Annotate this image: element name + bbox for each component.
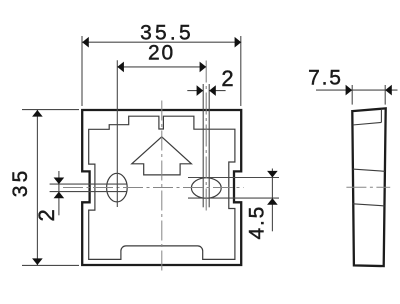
dim 35 top arrow <box>32 110 43 117</box>
right hole centerline <box>205 61 207 213</box>
front view inner contour <box>89 116 235 259</box>
right slot upper line <box>188 177 279 179</box>
dim 4.5 line <box>271 169 273 232</box>
side view lip line <box>353 122 382 125</box>
side view upper slot line <box>353 169 385 171</box>
dim 7.5 left arrow <box>346 85 353 96</box>
left slot lower line <box>50 191 127 193</box>
svg-text:7.5: 7.5 <box>308 67 343 90</box>
dim 20 right arrow <box>200 62 207 73</box>
dim 20 left arrow <box>117 62 124 73</box>
svg-text:2: 2 <box>221 66 235 91</box>
dim 7.5 left extension line <box>351 85 353 105</box>
left slot upper line <box>50 183 127 185</box>
dim 2 top left line <box>187 90 203 92</box>
dim 2 left line <box>58 171 60 215</box>
dim 35 bottom extension line <box>22 264 79 266</box>
dim 20 left extension line <box>116 60 118 207</box>
dim 35.5 line <box>82 41 241 43</box>
dim 35.5 left extension line <box>81 36 83 106</box>
right hole <box>191 178 221 198</box>
dim 4.5 top arrow <box>267 171 278 178</box>
dim 2 top right line <box>209 90 225 92</box>
svg-text:20: 20 <box>148 41 175 64</box>
side view lip vertical <box>380 109 382 123</box>
dim 7.5 right arrow <box>385 85 392 96</box>
svg-text:4.5: 4.5 <box>245 205 268 240</box>
vertical slot left edge <box>202 84 204 207</box>
dim 35.5 left arrow <box>82 37 89 48</box>
dim 35 line <box>36 110 38 265</box>
right slot lower line <box>188 197 279 199</box>
vertical slot right edge <box>208 84 210 207</box>
vertical centerline <box>161 101 163 273</box>
dim 2 top right arrow <box>209 85 216 96</box>
side view outline <box>352 108 385 266</box>
dim 2 left top arrow <box>54 178 65 185</box>
dim 35 top extension line <box>22 109 79 111</box>
front view outer outline <box>82 110 241 265</box>
side view lower slot line <box>353 204 385 206</box>
svg-text:35: 35 <box>9 168 32 198</box>
block arrow marking <box>132 137 192 175</box>
svg-text:2: 2 <box>34 207 59 221</box>
side view centerline <box>346 186 390 188</box>
dim 2 left bottom arrow <box>54 192 65 199</box>
dim 2 top left arrow <box>197 85 204 96</box>
dim 35 bottom arrow <box>32 258 43 265</box>
dim 7.5 line <box>316 89 398 91</box>
dim 20 line <box>117 66 206 68</box>
left hole <box>107 173 128 202</box>
horizontal centerline <box>63 187 244 189</box>
dim 35.5 right extension line <box>240 36 242 106</box>
dim 4.5 bottom arrow <box>267 198 278 205</box>
dim 7.5 right extension line <box>384 85 386 105</box>
dim 35.5 right arrow <box>235 37 242 48</box>
